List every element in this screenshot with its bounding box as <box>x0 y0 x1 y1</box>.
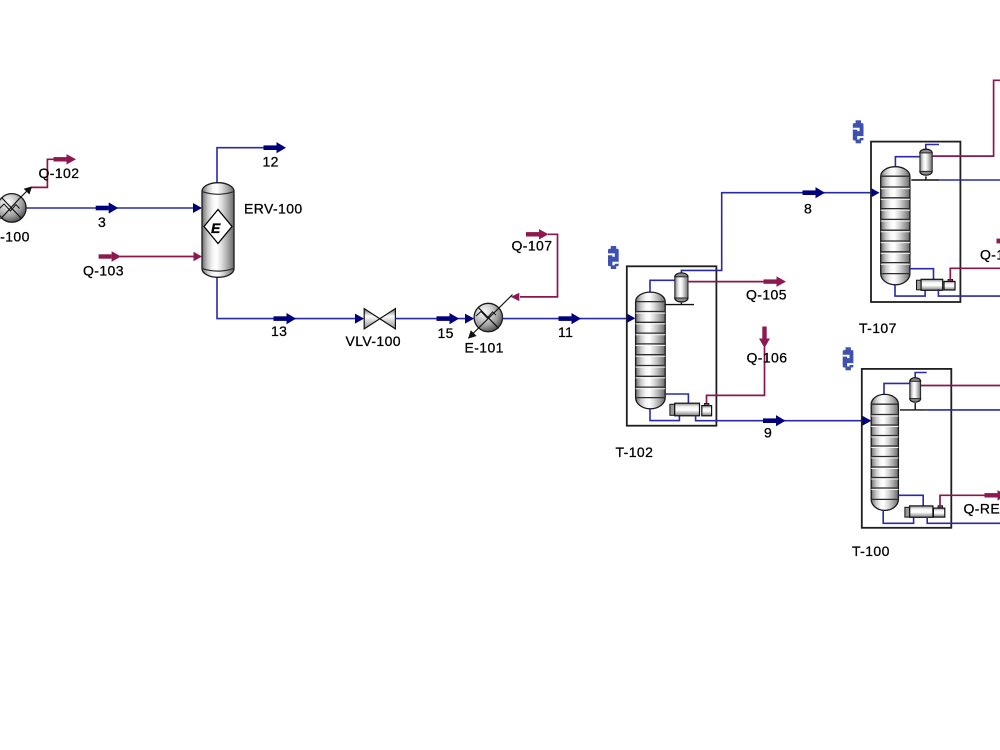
energy arrow Q-103 <box>99 251 122 261</box>
wire T-100 distillate product (blue to right) <box>927 409 1000 411</box>
column environment icon T-107 <box>853 120 864 143</box>
reboiler T-102 <box>670 403 712 416</box>
svg-text:Q-107: Q-107 <box>512 238 553 254</box>
wire T-100 condenser vent stub <box>915 373 927 378</box>
stream 12 arrow <box>264 142 287 153</box>
svg-text:T-100: T-100 <box>852 543 890 559</box>
wire T-102 bottoms to reboiler <box>650 408 679 421</box>
svg-text:13: 13 <box>271 323 287 339</box>
svg-text:12: 12 <box>263 154 279 170</box>
svg-text:ERV-100: ERV-100 <box>244 201 303 217</box>
wire T-107 condenser vent stub <box>926 145 939 149</box>
svg-text:T-102: T-102 <box>616 444 654 460</box>
wire T-100 bottoms product (blue to right) <box>927 517 1000 523</box>
subflowsheet box T-102 <box>627 266 717 425</box>
svg-text:Q-105: Q-105 <box>746 287 787 303</box>
svg-text:Q-104: Q-104 <box>980 247 1000 263</box>
wire T-107 column to reboiler top <box>910 269 934 280</box>
energy arrow partial at right edge (T-107 reboiler duty) <box>997 239 1000 244</box>
wire stream 12 (ERV-100 top product) <box>217 148 264 184</box>
vessel ERV-100 <box>202 183 234 278</box>
wire energy stream Q-102 <box>32 159 55 187</box>
wire T-102 column to reboiler top <box>665 394 688 403</box>
column environment icon T-100 <box>843 347 854 370</box>
svg-text:E-100: E-100 <box>0 229 30 245</box>
svg-text:Q-REB: Q-REB <box>964 501 1000 517</box>
wire energy stream Q-106 <box>707 347 765 405</box>
svg-text:VLV-100: VLV-100 <box>346 333 401 349</box>
wire T-100 bottoms to reboiler <box>883 510 913 523</box>
condenser T-102 <box>675 273 688 302</box>
energy arrow Q-105 <box>764 276 787 286</box>
node stream 9 arrowhead at T-100 <box>862 416 871 426</box>
wire stream 9 (T-102 reboiler to T-100) <box>696 416 870 421</box>
wire energy stream Q-105 <box>688 281 764 283</box>
column tower T-100 <box>871 394 898 510</box>
node stream 8 arrowhead at T-107 <box>871 188 880 198</box>
reboiler T-107 <box>917 279 956 290</box>
svg-text:9: 9 <box>764 425 772 441</box>
wire T-100 column to reboiler top <box>898 495 923 505</box>
wire stream 11 (E-101 to T-102) <box>503 318 635 320</box>
wire T-107 reboiler energy (maroon to right) <box>950 268 1000 281</box>
node Q-103 arrowhead at ERV-100 <box>194 252 203 261</box>
column tower T-102 <box>636 292 666 409</box>
svg-text:8: 8 <box>804 201 812 217</box>
energy arrow Q-107 <box>526 229 549 239</box>
wire T-107 bottoms to reboiler <box>895 284 925 296</box>
stream 3 arrow <box>96 202 119 213</box>
svg-text:Q-106: Q-106 <box>747 350 788 366</box>
node Q-107 arrowhead at E-101 <box>511 293 520 301</box>
column tower T-107 <box>881 167 910 285</box>
wire stream 15 (VLV-100 to E-101) <box>395 318 473 320</box>
wire T-100 condenser energy (maroon to right) <box>921 385 1000 387</box>
valve VLV-100 <box>364 309 395 329</box>
energy arrow Q-102 <box>54 154 77 164</box>
svg-text:11: 11 <box>558 324 573 340</box>
stream 9 arrow <box>763 415 786 426</box>
node stream 3 inlet arrowhead at ERV-100 <box>193 203 202 213</box>
subflowsheet box T-107 <box>871 142 960 302</box>
wire T-102 distillate stub (black) <box>665 303 695 305</box>
wire energy stream Q-103 <box>120 256 194 258</box>
wire T-107 overhead vapour <box>895 157 919 168</box>
wire stream 3 (E-100 to ERV-100) <box>25 207 201 209</box>
wire stream 8 (T-102 condenser to T-107) <box>681 193 878 274</box>
wire T-107 distillate product (blue to right) <box>939 179 1000 181</box>
node stream 15 arrowhead at E-101 <box>465 314 474 324</box>
node stream 13 arrowhead at VLV-100 <box>355 314 364 324</box>
wire T-107 bottoms product (blue to right) <box>938 289 1000 296</box>
wire T-100 reboiler energy (maroon to right) <box>940 495 985 507</box>
condenser T-107 <box>920 149 932 175</box>
svg-text:E-101: E-101 <box>465 340 504 356</box>
stream 11 arrow <box>559 313 582 324</box>
wire stream 13 (ERV-100 bottom to VLV-100) <box>217 277 363 319</box>
svg-text:E: E <box>211 220 221 236</box>
wire T-107 distillate stub (black) <box>911 176 939 180</box>
energy arrow Q-106 (down) <box>759 327 770 349</box>
svg-text:3: 3 <box>98 214 106 230</box>
heat exchanger E-100 <box>0 186 32 222</box>
energy arrow Q-REB <box>985 490 1000 500</box>
svg-text:Q-103: Q-103 <box>83 263 124 279</box>
node stream 11 arrowhead at T-102 column <box>626 313 635 323</box>
svg-text:Q-102: Q-102 <box>39 165 80 181</box>
stream 13 arrow <box>274 313 297 324</box>
condenser T-100 <box>910 378 921 403</box>
wire T-100 distillate stub (black) <box>900 403 927 410</box>
heat exchanger E-101 <box>468 295 513 339</box>
wire energy stream Q-107 <box>520 234 558 297</box>
stream 15 arrow <box>437 313 460 324</box>
reboiler T-100 <box>905 506 945 518</box>
wire T-100 overhead vapour <box>884 383 910 395</box>
column environment icon T-102 <box>608 246 619 269</box>
svg-text:T-107: T-107 <box>859 320 897 336</box>
subflowsheet box T-100 <box>862 369 952 528</box>
wire T-107 condenser energy (maroon to top right) <box>932 80 1000 156</box>
svg-text:15: 15 <box>438 325 454 341</box>
stream 8 arrow <box>803 187 826 198</box>
wire T-102 overhead vapour <box>650 280 675 292</box>
